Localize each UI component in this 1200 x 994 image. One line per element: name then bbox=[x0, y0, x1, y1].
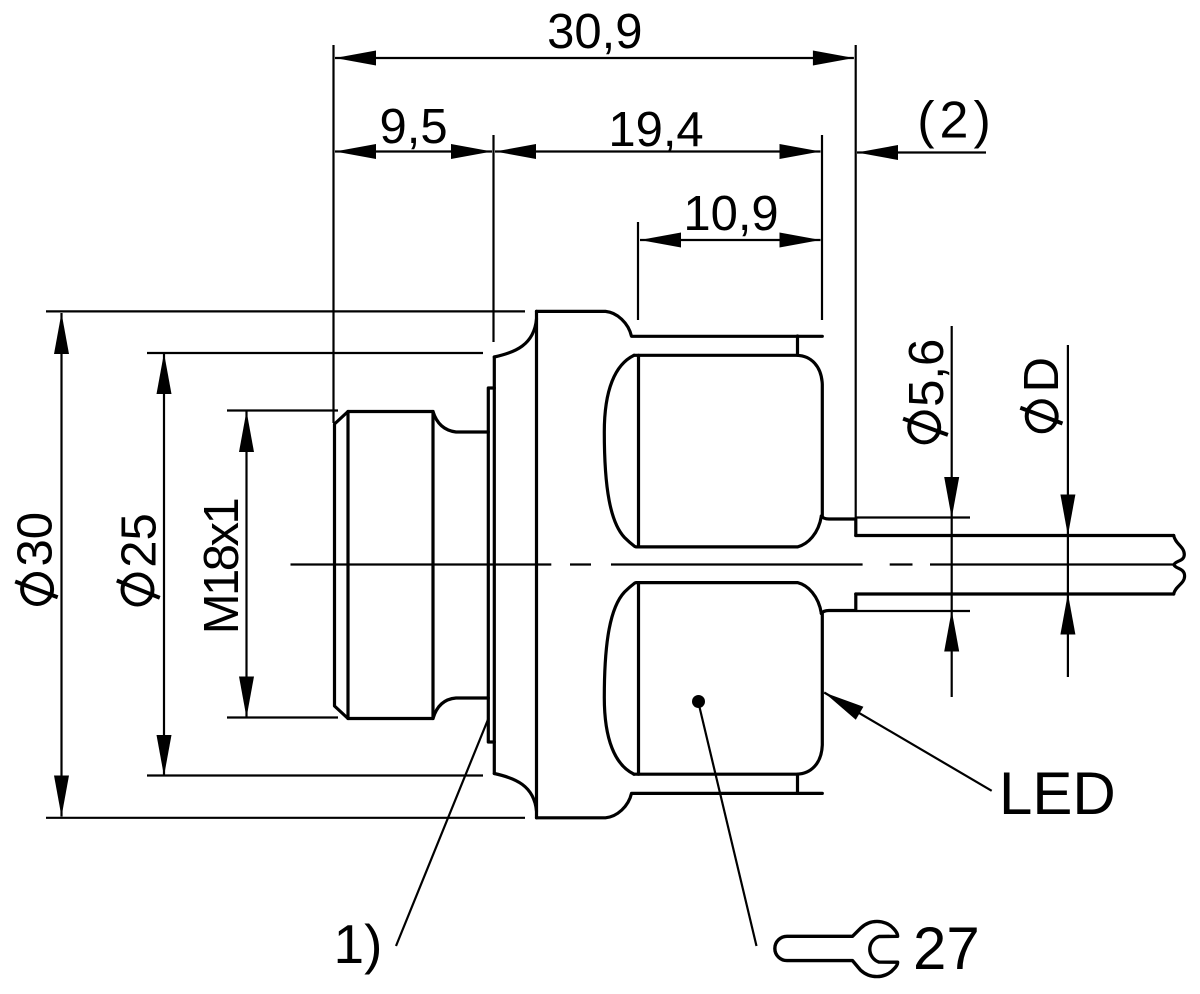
dim line dia25 bbox=[163, 353, 165, 776]
flange bottom edge + fillet + hex flat bbox=[537, 793, 823, 817]
cable bottom edge bbox=[856, 592, 1174, 595]
diameter symbols bbox=[15, 401, 1062, 604]
flange front face bbox=[535, 311, 538, 817]
ext line dia30 top bbox=[46, 310, 525, 312]
svg-text:1): 1) bbox=[334, 913, 383, 975]
arrow dia30 bottom bbox=[54, 776, 69, 817]
svg-text:(2): (2) bbox=[917, 92, 996, 150]
svg-text:27: 27 bbox=[913, 915, 980, 982]
cable boss fillet + top edge bbox=[821, 516, 855, 536]
arrow LED (points up-left) bbox=[824, 693, 863, 720]
ext line collar face bbox=[492, 135, 494, 342]
dia symbol for 25 bbox=[123, 575, 153, 605]
arrow 10,9 right bbox=[780, 233, 821, 248]
arrow dia30 top bbox=[54, 313, 69, 354]
collar front face bbox=[493, 357, 496, 774]
ext line dia5,6 bottom bbox=[856, 610, 970, 612]
rear cap top lobe bbox=[604, 355, 821, 547]
dim line dia5,6 bbox=[951, 326, 953, 697]
arrow 19,4 left bbox=[495, 144, 536, 159]
thread chamfer line bbox=[346, 412, 349, 719]
rear cap bottom lobe inner edge bbox=[637, 583, 640, 775]
ext line dia5,6 top bbox=[856, 516, 970, 518]
LED dot bbox=[692, 695, 705, 708]
svg-text:LED: LED bbox=[999, 760, 1116, 827]
dim line (2) bbox=[857, 151, 986, 153]
dim line 9,5 bbox=[335, 150, 492, 152]
arrow 9,5 right bbox=[451, 144, 492, 159]
dim line diaD bbox=[1067, 345, 1069, 677]
arrow 30,9 right bbox=[813, 51, 854, 66]
arrow diaD top (points down) bbox=[1060, 495, 1075, 536]
step behind hex bottom bbox=[796, 774, 799, 793]
centerline bbox=[291, 563, 1174, 565]
flange top edge + fillet + hex flat bbox=[537, 311, 823, 336]
leader LED bbox=[824, 693, 992, 791]
arrow 10,9 left bbox=[640, 233, 681, 248]
dia symbol for 30 bbox=[22, 574, 52, 604]
rear cap top lobe top edge and corner bbox=[634, 355, 822, 516]
collar-to-flange fillet bottom bbox=[494, 774, 536, 812]
ext line M18 bottom bbox=[227, 716, 338, 718]
collar-to-flange fillet top bbox=[494, 319, 536, 357]
thread relief neck top bbox=[433, 412, 488, 433]
ext line cable boss rear bbox=[855, 45, 857, 519]
svg-text:9,5: 9,5 bbox=[380, 100, 448, 154]
dim line 10,9 bbox=[640, 239, 821, 241]
svg-text:19,4: 19,4 bbox=[608, 103, 703, 157]
cable break wave bbox=[1174, 536, 1185, 595]
ext line M18 top bbox=[227, 409, 338, 411]
rear cap bottom lobe bbox=[604, 583, 821, 775]
arrow dia25 bottom bbox=[157, 735, 172, 776]
step behind hex top bbox=[796, 336, 799, 355]
dim line M18x1 bbox=[245, 411, 247, 718]
leader wrench from dot bbox=[699, 705, 757, 946]
ext line dia30 bottom bbox=[46, 817, 525, 819]
arrow M18 top bbox=[239, 411, 254, 452]
arrow dia5,6 bottom (points up) bbox=[944, 611, 959, 652]
dim line 30,9 bbox=[335, 57, 854, 59]
cable boss fillet + bottom edge bbox=[821, 594, 855, 614]
arrow diaD bottom (points up) bbox=[1060, 594, 1075, 635]
svg-text:M18x1: M18x1 bbox=[195, 499, 249, 634]
cable top edge bbox=[856, 534, 1174, 537]
thread relief neck bottom bbox=[433, 698, 488, 719]
ext line cap inner edge bbox=[637, 222, 639, 320]
arrow 9,5 left bbox=[335, 144, 376, 159]
ext line thread front bbox=[332, 45, 334, 423]
svg-text:25: 25 bbox=[113, 513, 167, 568]
arrow (2) left bbox=[857, 145, 898, 160]
dia symbol for 5,6 bbox=[909, 412, 939, 442]
svg-text:5,6: 5,6 bbox=[900, 339, 954, 407]
ext line dia25 top bbox=[147, 352, 483, 354]
dim line dia30 bbox=[60, 313, 62, 817]
wrench symbol 27 bbox=[775, 921, 898, 976]
dim line 19,4 bbox=[495, 150, 821, 152]
arrow M18 bottom bbox=[239, 677, 254, 718]
svg-text:30: 30 bbox=[9, 512, 63, 567]
arrow dia5,6 top (points down) bbox=[944, 477, 959, 518]
arrow 30,9 left bbox=[335, 51, 376, 66]
svg-text:30,9: 30,9 bbox=[547, 5, 642, 59]
arrow 19,4 right bbox=[780, 144, 821, 159]
arrow dia25 top bbox=[157, 353, 172, 394]
svg-text:D: D bbox=[1015, 357, 1069, 392]
thread barrel M18 bbox=[335, 412, 434, 719]
rear cap bottom lobe bottom edge and corner bbox=[634, 614, 822, 775]
leader 1) bbox=[396, 718, 489, 946]
ext line rear face bbox=[821, 135, 823, 320]
dia symbol for D bbox=[1027, 401, 1057, 431]
sealing washer bbox=[488, 388, 494, 742]
ext line dia25 bottom bbox=[147, 774, 483, 776]
rear cap top lobe inner edge bbox=[637, 355, 640, 547]
svg-text:10,9: 10,9 bbox=[683, 187, 778, 241]
